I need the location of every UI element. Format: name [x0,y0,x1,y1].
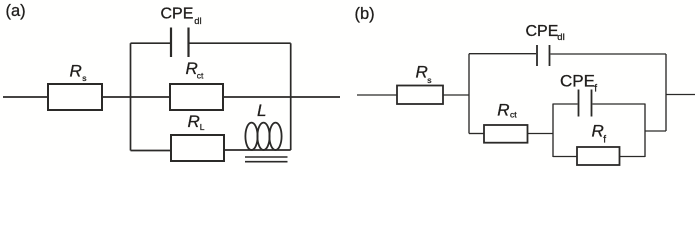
svg-text:CPE: CPE [526,23,559,40]
svg-text:f: f [594,83,597,94]
svg-text:L: L [200,122,205,132]
svg-text:dl: dl [194,16,201,27]
svg-text:R: R [70,61,82,80]
svg-text:(a): (a) [6,2,26,20]
svg-text:R: R [497,100,509,119]
svg-text:R: R [188,112,200,131]
svg-text:CPE: CPE [161,6,194,23]
svg-text:ct: ct [197,71,204,81]
svg-text:L: L [257,101,266,120]
svg-text:R: R [416,63,428,82]
svg-text:(b): (b) [355,5,375,23]
svg-text:R: R [592,122,604,141]
svg-text:ct: ct [510,110,517,120]
svg-text:CPE: CPE [560,72,595,91]
svg-text:s: s [427,75,431,85]
svg-text:dl: dl [557,32,564,43]
svg-text:s: s [82,73,86,83]
svg-text:f: f [603,135,606,146]
